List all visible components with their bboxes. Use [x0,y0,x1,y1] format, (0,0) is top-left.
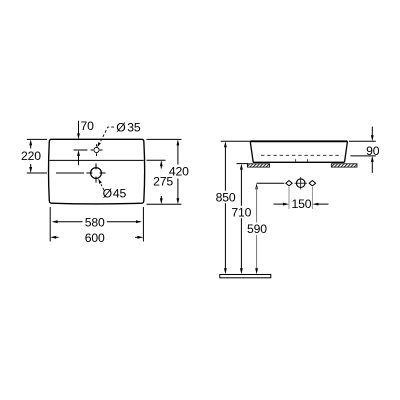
right mounting pad (hatched) [331,164,357,167]
drain hole (Ø45) [86,163,105,182]
svg-text:275: 275 [153,174,173,188]
svg-text:Ø: Ø [116,120,126,134]
svg-text:850: 850 [216,190,236,204]
tap connection diamond right [309,181,315,186]
dimension 90 [349,127,380,173]
dimension 710 [231,164,251,275]
label Ø45 with leader [98,179,126,201]
tap hole circle [295,177,307,189]
svg-text:Ø: Ø [103,186,113,200]
svg-text:45: 45 [113,186,127,200]
hidden drain ticks [295,159,297,162]
svg-text:35: 35 [127,120,141,134]
hidden (dashed) line [261,154,340,156]
basin ledge line [50,159,144,161]
drain centerline [56,172,84,174]
svg-text:70: 70 [81,119,95,133]
dimension 420 [147,139,190,204]
dimension 150 [274,187,329,211]
faucet hole (Ø35) [91,144,103,156]
svg-text:90: 90 [366,144,380,158]
floor bar [220,275,271,278]
svg-text:710: 710 [231,206,251,220]
svg-text:150: 150 [292,197,312,211]
svg-text:590: 590 [247,222,267,236]
tap connection diamond left [286,181,292,186]
dimension 600 [50,231,143,245]
dimension 275 [147,160,174,204]
dimension 580 [50,207,143,242]
label Ø35 with leader [97,120,141,147]
svg-text:220: 220 [21,149,41,163]
svg-text:600: 600 [85,231,105,245]
dimension 220 [21,139,47,173]
dimension 590 [247,183,284,274]
dimension 70 [74,119,95,165]
basin profile [250,141,347,162]
svg-text:580: 580 [85,216,105,230]
basin outline [49,139,145,204]
basin top edge (thick) [251,140,348,142]
dimension 850 [216,141,251,274]
left mounting pad (hatched) [247,164,269,167]
